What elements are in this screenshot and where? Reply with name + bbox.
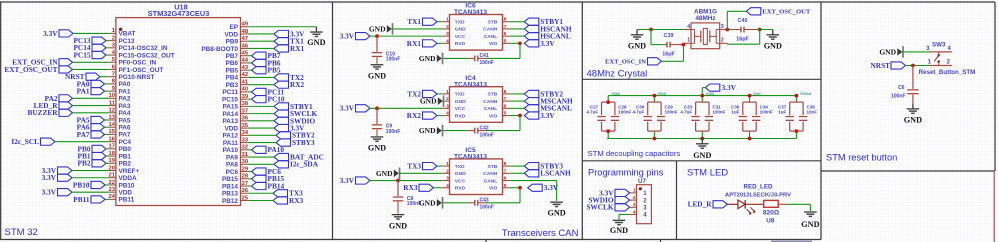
LED RED_LED APT2012LSECK/J3-PRV bbox=[727, 200, 763, 215]
svg-text:PC6: PC6 bbox=[226, 169, 239, 176]
junction bbox=[758, 28, 762, 32]
svg-text:3: 3 bbox=[446, 31, 449, 37]
ground (crystal right) bbox=[764, 30, 782, 51]
IC U18 STM32G473CEU3 body bbox=[116, 2, 241, 205]
svg-text:47: 47 bbox=[242, 36, 248, 42]
wire bbox=[248, 192, 273, 194]
U18 pin 16 PC4 bbox=[109, 136, 132, 146]
wire bbox=[485, 57, 520, 59]
svg-text:PF1-OSC_OUT: PF1-OSC_OUT bbox=[119, 67, 164, 74]
net label RX3 (IC5 pin 4 RXD) bbox=[403, 183, 433, 192]
ground (IC5 pin 2) bbox=[376, 168, 400, 180]
svg-text:3.3V: 3.3V bbox=[340, 104, 355, 113]
svg-text:VCC: VCC bbox=[455, 178, 466, 184]
svg-text:4: 4 bbox=[446, 111, 449, 117]
svg-text:PB12: PB12 bbox=[222, 198, 238, 205]
net label LED_R bbox=[688, 200, 728, 209]
net label PA5 (U18 pin 13) bbox=[77, 115, 105, 124]
U18 pin 48 VDD bbox=[225, 29, 249, 39]
junction bbox=[748, 94, 752, 98]
svg-text:BUZZER: BUZZER bbox=[27, 108, 58, 117]
junction bbox=[653, 137, 657, 141]
wire bbox=[510, 115, 520, 117]
svg-text:2: 2 bbox=[446, 24, 449, 30]
U18 pin 7 PG10-NRST bbox=[109, 72, 155, 82]
wire bbox=[510, 35, 525, 37]
svg-text:23: 23 bbox=[109, 187, 116, 193]
svg-text:PB11: PB11 bbox=[119, 197, 135, 204]
U18 pin 43 PB5 bbox=[226, 65, 249, 75]
svg-text:3: 3 bbox=[446, 176, 449, 182]
U18 pin 32 PA10 bbox=[222, 145, 248, 155]
svg-text:PB1: PB1 bbox=[119, 153, 132, 160]
wire bbox=[442, 202, 467, 204]
svg-text:STM reset button: STM reset button bbox=[826, 153, 897, 163]
junction bbox=[396, 179, 400, 183]
svg-text:U7: U7 bbox=[638, 178, 646, 185]
junction bbox=[606, 100, 610, 104]
svg-text:PC4: PC4 bbox=[119, 139, 132, 146]
U18 pin 49 EP bbox=[229, 22, 248, 32]
net label PC10 (U18 pin 39) bbox=[252, 95, 285, 104]
wire bbox=[637, 29, 651, 31]
wire bbox=[437, 115, 442, 117]
U18 pin 44 PB6 bbox=[226, 58, 249, 67]
ground (C43) bbox=[419, 197, 443, 209]
U18 pin 42 PB4 bbox=[226, 72, 248, 82]
wire bbox=[519, 116, 521, 131]
svg-text:3.3V: 3.3V bbox=[540, 111, 555, 120]
net label 3.3V (U18 pin 48) bbox=[274, 29, 305, 38]
svg-text:PC10: PC10 bbox=[222, 96, 238, 103]
net label STBY1 (IC6 pin 8 STB) bbox=[524, 17, 563, 26]
wire bbox=[399, 172, 442, 174]
svg-text:STM32G473CEU3: STM32G473CEU3 bbox=[148, 9, 210, 18]
svg-text:100nF: 100nF bbox=[665, 109, 678, 114]
svg-text:TXD: TXD bbox=[455, 20, 465, 26]
ground (SW3) bbox=[879, 46, 903, 58]
wire bbox=[519, 188, 521, 203]
power flag 3.3V (IC6 pin 5 VIO) bbox=[524, 39, 555, 48]
wire bbox=[248, 26, 317, 28]
svg-text:7: 7 bbox=[504, 96, 507, 102]
svg-text:1: 1 bbox=[446, 161, 449, 167]
net label 3.3V (U18 pin 21) bbox=[42, 173, 72, 182]
svg-text:3.3V: 3.3V bbox=[43, 29, 58, 38]
svg-text:2: 2 bbox=[633, 195, 636, 201]
svg-text:3.3V: 3.3V bbox=[340, 176, 355, 185]
svg-text:30: 30 bbox=[242, 159, 248, 165]
U18 pin 20 VREF+ bbox=[109, 165, 140, 175]
U18 pin 28 PB15 bbox=[222, 174, 249, 184]
ground (LED) bbox=[801, 212, 819, 229]
svg-text:32: 32 bbox=[242, 145, 248, 151]
junction bbox=[795, 129, 799, 133]
net label 3.3V (U7) bbox=[599, 188, 630, 197]
ground (IC6 pin 2) bbox=[369, 23, 393, 35]
net name VDDA bbox=[800, 91, 811, 96]
svg-text:PA1: PA1 bbox=[77, 87, 90, 96]
U18 pin 10 PA2 bbox=[109, 93, 131, 103]
svg-text:37: 37 bbox=[242, 108, 248, 114]
wire bbox=[105, 119, 109, 121]
net label PA6 (U18 pin 14) bbox=[77, 123, 105, 132]
wire bbox=[651, 44, 664, 46]
wire bbox=[370, 35, 442, 37]
svg-text:VDD: VDD bbox=[225, 31, 239, 38]
svg-text:PB2: PB2 bbox=[119, 161, 132, 168]
svg-text:6: 6 bbox=[504, 176, 507, 182]
wire bbox=[392, 28, 442, 30]
wire bbox=[105, 126, 109, 128]
svg-text:I2c_SCL: I2c_SCL bbox=[11, 137, 39, 146]
svg-text:820Ω: 820Ω bbox=[763, 209, 780, 216]
net label PA7 (U18 pin 15) bbox=[77, 130, 105, 139]
svg-text:4: 4 bbox=[633, 209, 636, 215]
net label TX2 (IC4 pin 1 TXD) bbox=[407, 89, 437, 98]
svg-text:CANL: CANL bbox=[484, 34, 498, 40]
svg-text:GND: GND bbox=[764, 41, 782, 50]
junction bbox=[682, 43, 686, 47]
net label HSCANH (IC6 pin 7 CANH) bbox=[524, 24, 572, 33]
wire bbox=[106, 162, 109, 164]
wire bbox=[749, 96, 751, 103]
net label TX1 (IC6 pin 1 TXD) bbox=[407, 17, 437, 26]
svg-text:GND: GND bbox=[693, 151, 711, 160]
svg-text:42: 42 bbox=[242, 72, 248, 78]
U18 pin 25 PB12 bbox=[222, 195, 249, 205]
net label PC11 (U18 pin 40) bbox=[252, 87, 285, 96]
svg-text:VIO: VIO bbox=[489, 41, 498, 47]
net label BUZZER (U18 pin 12) bbox=[27, 108, 72, 117]
wire bbox=[726, 11, 728, 29]
svg-text:VCC: VCC bbox=[455, 34, 466, 40]
wire bbox=[105, 83, 109, 85]
U18 pin 27 PB14 bbox=[222, 181, 248, 191]
svg-text:PB9: PB9 bbox=[226, 39, 239, 46]
svg-text:4: 4 bbox=[446, 38, 449, 44]
svg-text:C39: C39 bbox=[664, 33, 674, 39]
wire bbox=[370, 180, 442, 182]
svg-text:CANH: CANH bbox=[483, 27, 498, 33]
net name VDD bbox=[706, 91, 715, 96]
svg-text:1: 1 bbox=[687, 38, 690, 44]
svg-text:PB14: PB14 bbox=[222, 183, 238, 190]
net label STBY2 (IC4 pin 8 STB) bbox=[524, 89, 563, 98]
ground (C41) bbox=[419, 53, 443, 65]
svg-text:PB11: PB11 bbox=[73, 195, 90, 204]
net label LSCANH (IC5 pin 7 CANH) bbox=[524, 169, 571, 178]
svg-text:PB2: PB2 bbox=[78, 159, 91, 168]
ground (C6) bbox=[904, 104, 922, 125]
capacitor C29 100nF bbox=[657, 102, 678, 131]
net label PB14 (U18 pin 27) bbox=[252, 181, 285, 190]
svg-text:VDD: VDD bbox=[658, 91, 667, 96]
power flag 3.3V (decoupling rail) bbox=[705, 83, 736, 92]
svg-text:3.3V: 3.3V bbox=[540, 39, 555, 48]
svg-text:STM 32: STM 32 bbox=[5, 227, 38, 238]
svg-text:48MHz: 48MHz bbox=[695, 15, 715, 22]
net label PA0 (U18 pin 8) bbox=[77, 79, 105, 88]
svg-text:27: 27 bbox=[242, 181, 248, 187]
wire bbox=[106, 155, 109, 157]
svg-text:PA0: PA0 bbox=[119, 81, 131, 88]
svg-text:1: 1 bbox=[633, 188, 636, 194]
svg-text:GND: GND bbox=[419, 198, 436, 207]
junction bbox=[700, 137, 704, 141]
svg-text:3: 3 bbox=[446, 103, 449, 109]
svg-text:RED_LED: RED_LED bbox=[744, 184, 773, 191]
net label PC14 (U18 pin 3) bbox=[73, 43, 106, 52]
svg-text:GND: GND bbox=[904, 116, 922, 125]
net label PB6 (U18 pin 44) bbox=[252, 58, 281, 67]
net label EXT_OSC_OUT (crystal pin 3) bbox=[746, 8, 811, 16]
svg-text:PB13: PB13 bbox=[222, 191, 238, 198]
svg-text:VREF+: VREF+ bbox=[119, 168, 140, 175]
svg-text:STM LED: STM LED bbox=[687, 168, 728, 179]
wire bbox=[106, 47, 109, 49]
wire bbox=[105, 133, 109, 135]
svg-text:15: 15 bbox=[109, 129, 116, 135]
svg-text:APT2012LSECK/J3-PRV: APT2012LSECK/J3-PRV bbox=[725, 192, 791, 198]
wire bbox=[607, 96, 609, 103]
wire bbox=[485, 130, 520, 132]
wire bbox=[683, 45, 685, 62]
wire bbox=[248, 105, 274, 107]
wire bbox=[248, 47, 274, 49]
svg-text:12: 12 bbox=[109, 108, 115, 114]
ground (C42) bbox=[419, 125, 443, 137]
svg-text:4.7uF: 4.7uF bbox=[586, 109, 598, 114]
junction bbox=[649, 28, 653, 32]
svg-text:16: 16 bbox=[109, 136, 116, 142]
svg-text:VDD: VDD bbox=[706, 91, 715, 96]
svg-text:TXD: TXD bbox=[455, 164, 465, 170]
svg-text:4.7uF: 4.7uF bbox=[633, 109, 645, 114]
svg-text:RX1: RX1 bbox=[407, 39, 422, 48]
svg-text:11: 11 bbox=[109, 100, 116, 106]
svg-text:RXD: RXD bbox=[455, 113, 466, 119]
svg-text:GND: GND bbox=[419, 54, 436, 63]
wire bbox=[248, 113, 274, 115]
wire bbox=[437, 42, 442, 44]
svg-text:TX3: TX3 bbox=[407, 162, 421, 171]
U18 pin 46 PB8-BOOT0 bbox=[201, 43, 248, 53]
svg-text:GND: GND bbox=[368, 144, 386, 153]
svg-text:14: 14 bbox=[109, 122, 116, 128]
wire bbox=[248, 62, 252, 64]
svg-text:100nF: 100nF bbox=[480, 205, 494, 211]
wire bbox=[248, 76, 274, 78]
wire bbox=[72, 170, 109, 172]
wire bbox=[795, 131, 797, 138]
wire bbox=[248, 142, 276, 144]
capacitor C40 16pF bbox=[731, 18, 756, 42]
capacitor C37 1uF bbox=[778, 102, 803, 131]
svg-text:18: 18 bbox=[109, 151, 116, 157]
wire bbox=[248, 178, 252, 180]
svg-text:3.3V: 3.3V bbox=[42, 188, 57, 197]
svg-text:PC10: PC10 bbox=[268, 95, 285, 104]
net label BAT_ADC (U18 pin 31) bbox=[274, 152, 324, 161]
svg-text:GND: GND bbox=[547, 209, 565, 218]
svg-text:EXT_OSC_OUT: EXT_OSC_OUT bbox=[4, 65, 57, 74]
ground (IC5 CANL) bbox=[547, 202, 565, 218]
wire bbox=[510, 107, 525, 109]
svg-text:GND: GND bbox=[419, 126, 436, 135]
svg-text:PC13: PC13 bbox=[119, 38, 135, 45]
crystal Y1 ABM1G 48MHz bbox=[684, 9, 727, 49]
wire bbox=[727, 43, 760, 45]
wire bbox=[651, 29, 684, 31]
U18 pin 41 PB3 bbox=[226, 79, 249, 89]
capacitor C9 100nF bbox=[372, 108, 400, 136]
svg-text:EXT_OSC_IN: EXT_OSC_IN bbox=[605, 59, 646, 66]
svg-text:TCAN3413: TCAN3413 bbox=[454, 81, 487, 88]
U18 pin 29 PC6 bbox=[226, 166, 249, 176]
svg-text:VDDA: VDDA bbox=[800, 91, 811, 96]
svg-text:1uF: 1uF bbox=[731, 109, 739, 114]
power flag 3.3V (IC6 VCC) bbox=[340, 32, 370, 41]
wire bbox=[619, 214, 630, 216]
svg-text:20: 20 bbox=[109, 165, 115, 171]
svg-text:CANH: CANH bbox=[483, 171, 498, 177]
svg-text:PC15: PC15 bbox=[73, 50, 90, 59]
junction bbox=[748, 137, 752, 141]
junction bbox=[911, 64, 915, 68]
svg-text:1: 1 bbox=[446, 17, 449, 23]
section title STM LED bbox=[687, 168, 728, 179]
svg-text:PA7: PA7 bbox=[119, 132, 131, 139]
svg-text:1uF: 1uF bbox=[778, 109, 786, 114]
net label 3.3V (U18 pin 1) bbox=[43, 29, 73, 38]
wire bbox=[785, 203, 810, 205]
net label PB2 (U18 pin 19) bbox=[78, 159, 106, 168]
svg-text:PB3: PB3 bbox=[226, 82, 239, 89]
wire bbox=[903, 51, 930, 53]
wire bbox=[248, 149, 252, 151]
ground (C8) bbox=[389, 215, 407, 231]
U18 pin 18 PB1 bbox=[109, 151, 132, 161]
wire bbox=[248, 84, 274, 86]
svg-text:TCAN3413: TCAN3413 bbox=[454, 9, 487, 16]
U18 pin 3 PC14-OSC32_IN bbox=[109, 43, 168, 53]
net label PB15 (U18 pin 28) bbox=[252, 174, 285, 183]
wire bbox=[702, 87, 705, 89]
wire bbox=[248, 185, 252, 187]
section title Programming pins bbox=[588, 168, 664, 178]
svg-text:22: 22 bbox=[109, 180, 115, 186]
net label STBY1 (U18 pin 38) bbox=[274, 102, 313, 111]
svg-text:3: 3 bbox=[721, 24, 724, 30]
svg-text:LED_R: LED_R bbox=[688, 200, 713, 209]
wire bbox=[510, 28, 525, 30]
capacitor C33 4.7uF bbox=[680, 102, 709, 131]
svg-text:PA6: PA6 bbox=[119, 125, 131, 132]
capacitor C41 100nF bbox=[468, 53, 494, 66]
capacitor C8 100nF bbox=[393, 181, 421, 214]
svg-text:PA1: PA1 bbox=[119, 88, 131, 95]
svg-text:10nF: 10nF bbox=[807, 109, 818, 114]
U18 pin 6 PF1-OSC_OUT bbox=[109, 64, 164, 74]
U18 pin 14 PA6 bbox=[109, 122, 131, 131]
net label PB1 (U18 pin 18) bbox=[78, 151, 106, 160]
svg-text:PA9: PA9 bbox=[226, 154, 238, 161]
U18 pin 15 PA7 bbox=[109, 129, 131, 139]
svg-text:PA10: PA10 bbox=[222, 147, 238, 154]
svg-text:13: 13 bbox=[109, 115, 116, 121]
wire bbox=[510, 165, 525, 167]
svg-text:2: 2 bbox=[446, 96, 449, 102]
svg-text:PA13: PA13 bbox=[222, 118, 238, 125]
wire bbox=[248, 33, 274, 35]
power flag 3.3V (IC4 pin 5 VIO) bbox=[524, 111, 555, 120]
svg-text:4.7uF: 4.7uF bbox=[680, 109, 692, 114]
power flag 3.3V (IC5 VCC) bbox=[340, 176, 370, 185]
net label HSCANL (IC6 pin 6 CANL) bbox=[524, 32, 571, 41]
wire bbox=[485, 202, 520, 204]
wire bbox=[105, 198, 109, 200]
net label STBY2 (U18 pin 34) bbox=[276, 131, 315, 140]
wire bbox=[701, 88, 703, 96]
capacitor C6 100nF bbox=[891, 66, 919, 104]
junction bbox=[518, 41, 522, 45]
svg-text:100nF: 100nF bbox=[891, 94, 905, 100]
svg-text:TCAN3413: TCAN3413 bbox=[454, 154, 487, 161]
svg-text:2: 2 bbox=[112, 35, 115, 41]
wire bbox=[650, 30, 652, 45]
wire bbox=[662, 60, 684, 62]
wire bbox=[809, 204, 811, 211]
U18 pin 4 PC15-OSC32_OUT bbox=[109, 50, 175, 60]
net label STBY3 (IC5 pin 8 STB) bbox=[524, 162, 563, 171]
wire bbox=[653, 96, 655, 103]
svg-text:2: 2 bbox=[446, 168, 449, 174]
svg-text:8: 8 bbox=[504, 89, 507, 95]
section title STM 32 bbox=[5, 227, 38, 238]
U18 pin 37 PA14 bbox=[222, 108, 248, 118]
svg-text:STB: STB bbox=[488, 92, 498, 98]
wire bbox=[756, 29, 773, 31]
net label MSCANL (IC4 pin 6 CANL) bbox=[524, 104, 572, 113]
U18 pin 8 PA0 bbox=[109, 79, 131, 89]
svg-text:100nF: 100nF bbox=[386, 129, 400, 135]
junction bbox=[375, 106, 379, 110]
svg-text:PC14-OSC32_IN: PC14-OSC32_IN bbox=[119, 45, 168, 52]
svg-text:TX1: TX1 bbox=[407, 17, 421, 26]
svg-text:GND: GND bbox=[420, 97, 437, 106]
wire bbox=[248, 200, 273, 202]
capacitor C10 100nF bbox=[372, 36, 400, 64]
wire bbox=[106, 54, 109, 56]
net label RX2 (IC4 pin 4 RXD) bbox=[407, 111, 437, 120]
wire bbox=[248, 55, 252, 57]
svg-text:PB8-BOOT0: PB8-BOOT0 bbox=[201, 46, 238, 53]
svg-text:PA3: PA3 bbox=[119, 103, 131, 110]
svg-text:PA7: PA7 bbox=[77, 130, 90, 139]
ground (IC4 pin 2) bbox=[420, 95, 444, 107]
net label 3.3V (U18 pin 20) bbox=[42, 166, 72, 175]
net label 3.3V (U18 pin 23) bbox=[42, 188, 72, 197]
wire bbox=[248, 127, 274, 129]
svg-text:PA8: PA8 bbox=[226, 162, 238, 169]
net label EXT_OSC_IN (crystal pin 1) bbox=[605, 58, 662, 66]
wire bbox=[105, 90, 109, 92]
capacitor C39 16pF bbox=[662, 33, 683, 57]
svg-text:3.3V: 3.3V bbox=[340, 32, 355, 41]
capacitor C34 100nF bbox=[752, 102, 773, 131]
clipped text (next sheet row) bbox=[771, 241, 812, 242]
